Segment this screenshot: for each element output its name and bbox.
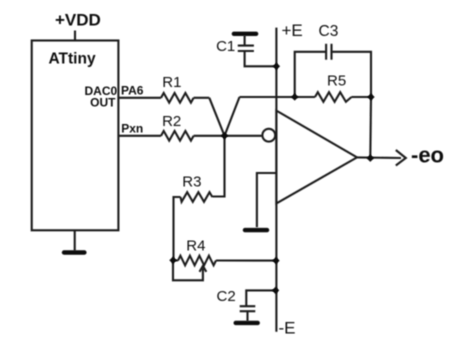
svg-text:-E: -E <box>279 319 296 338</box>
svg-text:R1: R1 <box>162 74 181 91</box>
svg-text:Pxn: Pxn <box>121 121 143 135</box>
svg-text:C1: C1 <box>216 38 235 55</box>
svg-text:C3: C3 <box>319 23 339 40</box>
svg-text:+VDD: +VDD <box>55 11 101 30</box>
svg-text:+E: +E <box>282 21 303 40</box>
svg-text:ATtiny: ATtiny <box>49 51 96 68</box>
svg-text:OUT: OUT <box>90 96 116 110</box>
svg-text:C2: C2 <box>217 288 236 305</box>
svg-text:R4: R4 <box>186 237 205 254</box>
svg-text:-eo: -eo <box>411 143 444 168</box>
svg-text:R2: R2 <box>162 113 181 130</box>
svg-text:PA6: PA6 <box>121 83 144 97</box>
svg-text:R3: R3 <box>182 173 201 190</box>
svg-text:R5: R5 <box>327 73 346 90</box>
